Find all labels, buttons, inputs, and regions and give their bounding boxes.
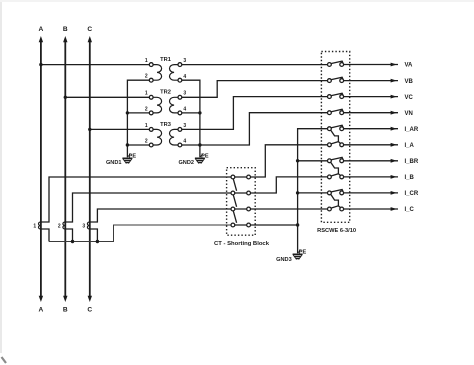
CT shorting blade row1-row2 xyxy=(233,179,236,191)
transformer TR2 xyxy=(145,90,187,115)
terminal row VC xyxy=(328,93,399,98)
CT shorting block outline xyxy=(227,168,256,236)
svg-text:2: 2 xyxy=(145,138,148,144)
wire TR3 pin3 to VC row jog xyxy=(182,97,328,130)
wire TR2 pin4 to GND2 rail xyxy=(182,112,200,114)
svg-text:GND1: GND1 xyxy=(106,160,122,166)
wire CT2 secondary bottom to return rail xyxy=(65,229,72,242)
wire I_BR tap xyxy=(298,160,328,162)
wire TR3 pin4 to VN jog xyxy=(182,113,328,145)
svg-text:GND2: GND2 xyxy=(178,160,194,166)
svg-text:RSCWE 6-3/10: RSCWE 6-3/10 xyxy=(317,228,356,234)
wire TR3 pin2 to GND1 rail xyxy=(127,144,149,146)
node TR3 pin4 junction xyxy=(198,143,201,146)
ground GND2 xyxy=(195,154,205,164)
CT shorting blade row3-row4 xyxy=(233,211,236,223)
wire CT3 secondary top to shorting row3 xyxy=(90,209,231,222)
terminal row I_B xyxy=(328,174,399,179)
svg-text:VB: VB xyxy=(405,79,414,85)
svg-text:4: 4 xyxy=(183,139,186,145)
node CT3 return junction xyxy=(96,240,99,243)
wire I_CR tap xyxy=(298,192,328,194)
svg-text:TR1: TR1 xyxy=(160,57,171,63)
terminal row I_C xyxy=(328,206,399,211)
node TR3 pin2 junction xyxy=(126,143,129,146)
svg-text:1: 1 xyxy=(145,58,148,64)
svg-text:VN: VN xyxy=(405,111,413,117)
bus C vertical line xyxy=(89,40,91,299)
node TR2 pin2 junction xyxy=(126,111,129,114)
scan smudge bottom-left xyxy=(2,357,7,363)
terminal row I_A xyxy=(328,142,399,147)
wire CT1 secondary bottom to return rail xyxy=(41,229,49,242)
wire TR2 pin2 to GND1 rail xyxy=(127,112,149,114)
node junction A xyxy=(39,63,42,66)
wire TR1 pin3 to VA row xyxy=(182,64,328,66)
wire shorting row4 to return net xyxy=(251,224,298,226)
wire shorting row2 to I_B row xyxy=(251,177,328,193)
node row4 return junction xyxy=(296,223,299,226)
svg-text:PE: PE xyxy=(129,153,137,159)
node CT2 return junction xyxy=(71,240,74,243)
wire TR1 pin4 to GND2 rail xyxy=(182,80,200,157)
bus B bottom arrowhead xyxy=(63,296,67,302)
ground GND1 xyxy=(122,154,132,164)
terminal row VB xyxy=(328,77,399,82)
svg-text:PE: PE xyxy=(299,249,307,255)
svg-text:3: 3 xyxy=(183,91,186,97)
node I_BR junction xyxy=(296,159,299,162)
bus A top arrowhead xyxy=(39,36,43,42)
svg-text:2: 2 xyxy=(145,106,148,112)
transformer TR1 xyxy=(145,57,187,82)
wire B to TR2 pin1 xyxy=(65,96,149,98)
scan edge artifact top xyxy=(0,0,474,2)
CT shorting blade row2-row3 xyxy=(233,195,236,207)
bus C bottom arrowhead xyxy=(88,296,92,302)
svg-text:4: 4 xyxy=(183,107,186,113)
wire CT return rail xyxy=(49,225,231,242)
ground GND3 xyxy=(293,250,303,260)
svg-text:CT - Shorting Block: CT - Shorting Block xyxy=(214,241,270,247)
node junction B xyxy=(64,96,67,99)
wire A to TR1 pin1 xyxy=(41,64,149,66)
wire CT1 secondary top to shorting row1 xyxy=(41,177,231,222)
svg-text:4: 4 xyxy=(183,74,186,80)
svg-text:I_AR: I_AR xyxy=(405,127,419,133)
RSCWE block outline xyxy=(321,52,349,223)
svg-text:TR2: TR2 xyxy=(160,90,171,96)
svg-text:3: 3 xyxy=(183,123,186,129)
svg-text:VA: VA xyxy=(405,63,414,69)
node TR2 pin4 junction xyxy=(198,111,201,114)
svg-text:3: 3 xyxy=(183,58,186,64)
svg-text:I_BR: I_BR xyxy=(405,159,419,165)
bus A vertical line xyxy=(40,40,42,299)
wire TR1 pin2 to GND1 rail xyxy=(127,80,149,157)
bus B top arrowhead xyxy=(63,36,67,42)
svg-text:2: 2 xyxy=(58,224,61,230)
CT shorting row 3 xyxy=(231,207,251,211)
svg-text:A: A xyxy=(39,26,44,33)
svg-text:1: 1 xyxy=(33,224,36,230)
wire C to TR3 pin1 xyxy=(90,128,150,130)
wire TR2 pin3 to VB row jog xyxy=(182,81,328,98)
svg-text:C: C xyxy=(87,306,92,313)
terminal row I_CR xyxy=(328,190,399,206)
transformer TR3 xyxy=(145,122,187,147)
svg-text:I_C: I_C xyxy=(405,207,415,213)
svg-text:TR3: TR3 xyxy=(160,122,171,128)
svg-text:I_A: I_A xyxy=(405,143,415,149)
svg-text:1: 1 xyxy=(145,91,148,97)
transformer CT3 xyxy=(82,222,89,230)
CT shorting row 2 xyxy=(231,191,251,195)
CT shorting row 4 xyxy=(231,223,251,227)
wire CT2 secondary top to shorting row2 xyxy=(65,193,231,222)
terminal row I_BR xyxy=(328,157,399,173)
wire CT3 secondary bottom to return rail xyxy=(90,229,98,242)
svg-text:I_CR: I_CR xyxy=(405,191,419,197)
bus B vertical line xyxy=(64,40,66,299)
svg-text:VC: VC xyxy=(405,95,414,101)
svg-text:1: 1 xyxy=(145,123,148,129)
svg-text:2: 2 xyxy=(145,74,148,80)
CT shorting row 1 xyxy=(231,175,251,179)
transformer CT1 xyxy=(33,222,40,230)
wire shorting row1 to I_A row xyxy=(251,145,328,177)
svg-text:B: B xyxy=(63,306,68,313)
bus A bottom arrowhead xyxy=(39,296,43,302)
terminal row I_AR xyxy=(328,125,399,141)
terminal row VA xyxy=(328,61,399,66)
svg-text:I_B: I_B xyxy=(405,175,415,181)
svg-text:A: A xyxy=(39,306,44,313)
svg-text:3: 3 xyxy=(82,224,85,230)
bus C top arrowhead xyxy=(88,36,92,42)
transformer CT2 xyxy=(58,222,65,230)
svg-text:GND3: GND3 xyxy=(276,257,292,263)
svg-text:B: B xyxy=(63,26,68,33)
node I_CR junction xyxy=(296,191,299,194)
svg-text:PE: PE xyxy=(201,153,209,159)
scan edge artifact left xyxy=(0,0,2,353)
terminal row VN xyxy=(328,109,399,114)
svg-text:C: C xyxy=(87,26,92,33)
wire current return rail to I_AR xyxy=(298,129,328,254)
wire shorting row3 to I_C row xyxy=(251,208,328,210)
node junction C xyxy=(88,128,91,131)
